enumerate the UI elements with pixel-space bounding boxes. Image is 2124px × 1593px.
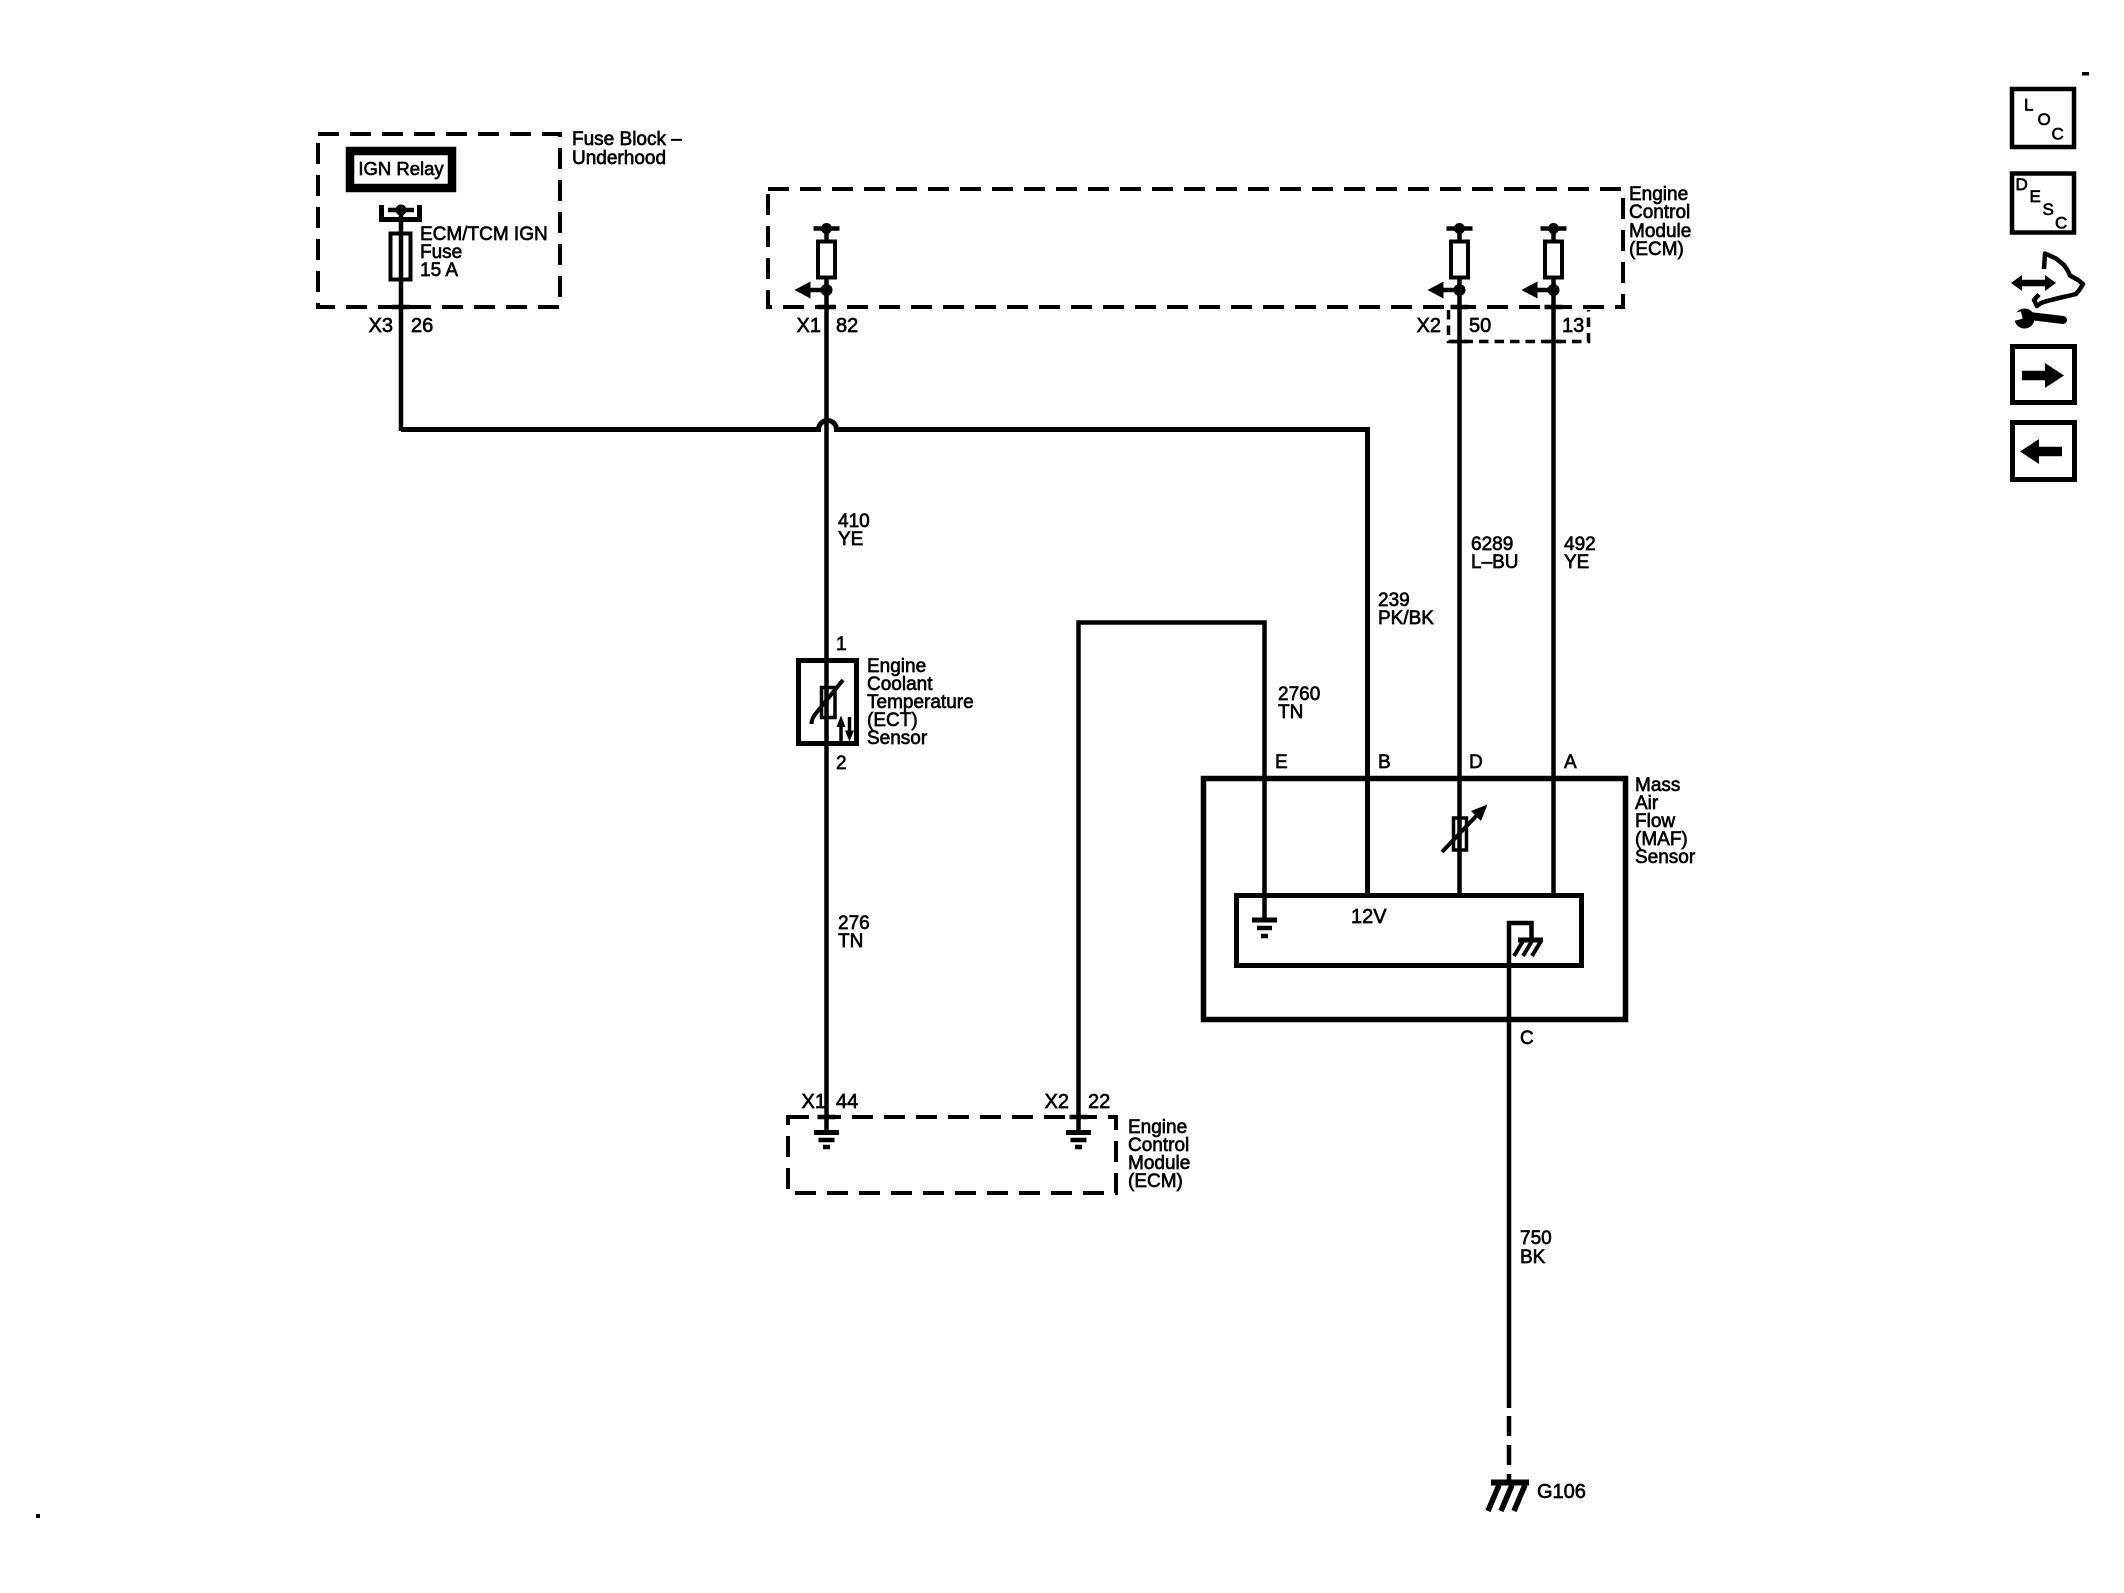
svg-text:15 A: 15 A [420,260,458,281]
svg-text:13: 13 [1562,315,1584,337]
svg-text:D: D [1469,752,1483,773]
svg-text:Fuse Block –: Fuse Block – [572,129,682,150]
svg-text:C: C [2055,214,2067,233]
svg-text:Sensor: Sensor [1635,847,1696,868]
svg-text:A: A [1564,752,1577,773]
svg-text:YE: YE [1564,552,1589,573]
svg-text:L: L [2024,96,2033,115]
svg-text:TN: TN [838,931,863,952]
svg-text:12V: 12V [1351,906,1387,928]
svg-text:D: D [2016,175,2028,194]
svg-text:44: 44 [836,1091,858,1113]
svg-text:X3: X3 [369,315,393,337]
svg-text:G106: G106 [1537,1481,1586,1503]
svg-text:L–BU: L–BU [1471,552,1519,573]
svg-text:X2: X2 [1045,1091,1069,1113]
svg-text:S: S [2043,200,2054,219]
svg-text:2: 2 [836,753,847,774]
svg-text:50: 50 [1469,315,1491,337]
svg-text:E: E [2030,187,2041,206]
svg-text:IGN Relay: IGN Relay [358,158,444,179]
svg-text:B: B [1378,752,1391,773]
svg-text:C: C [1520,1028,1534,1049]
svg-text:YE: YE [838,529,863,550]
svg-text:82: 82 [836,315,858,337]
svg-text:TN: TN [1278,702,1303,723]
svg-text:X1: X1 [802,1091,826,1113]
svg-text:PK/BK: PK/BK [1378,608,1434,629]
svg-text:1: 1 [836,634,847,655]
svg-text:Underhood: Underhood [572,148,666,169]
svg-text:Sensor: Sensor [867,728,928,749]
svg-text:E: E [1275,752,1288,773]
svg-text:BK: BK [1520,1247,1546,1268]
svg-text:(ECM): (ECM) [1629,239,1684,260]
svg-text:C: C [2052,125,2064,144]
svg-text:O: O [2038,110,2051,129]
svg-text:22: 22 [1088,1091,1110,1113]
svg-text:26: 26 [411,315,433,337]
svg-text:(ECM): (ECM) [1128,1171,1183,1192]
svg-text:X2: X2 [1417,315,1441,337]
svg-text:750: 750 [1520,1228,1552,1249]
svg-text:Control: Control [1629,202,1690,223]
svg-text:X1: X1 [797,315,821,337]
